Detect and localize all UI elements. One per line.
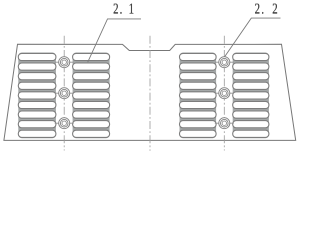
- centerline figure middle: [149, 36, 151, 151]
- screw S5: [215, 88, 234, 99]
- plate outline: [4, 44, 296, 140]
- screw S2: [55, 88, 74, 99]
- label 2.2: [255, 2, 278, 18]
- screw S6: [215, 118, 234, 129]
- leader line for label 2.1: [88, 19, 141, 62]
- centerline right screw column: [223, 36, 225, 151]
- svg-text:2.2: 2.2: [255, 2, 278, 18]
- vent slot column 4 (right group, right): [233, 53, 269, 139]
- vent slot column 2 (left group, right): [73, 53, 110, 139]
- screw S4: [215, 57, 234, 68]
- vent slot column 3 (right group, left): [180, 53, 217, 139]
- label 2.1: [113, 2, 134, 18]
- screw S3: [55, 118, 74, 129]
- screw S1: [55, 57, 74, 68]
- leader line for label 2.2: [225, 18, 281, 56]
- centerline left screw column: [63, 36, 65, 151]
- svg-text:2.1: 2.1: [113, 2, 134, 18]
- vent slot column 1 (left group, left): [18, 53, 56, 139]
